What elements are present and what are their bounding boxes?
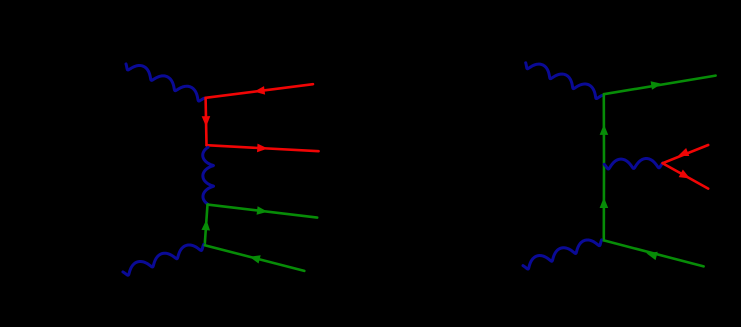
fermion line e1 (green, outgoing upper right) — [604, 76, 716, 95]
arrow on mu2 (pointing away from vertex W4) — [679, 170, 690, 179]
fermion line mu2 (red, lower fork) — [663, 163, 709, 188]
photon gamma5 (blue wavy, horizontal W2-W4) — [604, 159, 663, 170]
arrow on e23 (pointing up) — [600, 197, 609, 208]
arrow on q3 (pointing right) — [257, 206, 268, 215]
photon gamma2 (incoming wavy line, lower left) — [123, 245, 204, 276]
fermion propagator q12 (red, vertical V1-V2) — [204, 98, 207, 145]
photon gamma3 (incoming wavy line, upper left of right diagram) — [526, 63, 602, 99]
fermion propagator q34 (green, vertical V4-V3) — [205, 205, 208, 246]
photon gamma4 (incoming wavy line, lower left of right diagram) — [523, 240, 602, 269]
fermion line e2 (green, outgoing lower right) — [604, 240, 704, 266]
fermion line q1 (red, outgoing upper) — [206, 84, 313, 98]
fermion line q3 (green, outgoing upper) — [208, 205, 318, 218]
arrow on q4 (pointing toward vertex V4) — [249, 255, 260, 263]
fermion propagator e23 (green, vertical W2-W3) — [602, 165, 605, 240]
fermion line q2 (red, outgoing lower) — [207, 145, 319, 151]
arrow on mu1 (pointing toward vertex W4) — [678, 148, 689, 156]
arrow on q1 (pointing toward vertex V1) — [254, 86, 265, 95]
arrow on e12 (pointing up) — [600, 124, 609, 135]
fermion line mu1 (red, upper fork) — [663, 145, 709, 163]
fermion line q4 (green, outgoing lower) — [205, 245, 305, 271]
gluon propagator g (blue wavy, vertical V2-V3) — [203, 147, 214, 204]
arrow on q12 (pointing down) — [202, 116, 211, 127]
arrow on q34 (pointing up) — [201, 220, 210, 231]
arrow on e1 (pointing right) — [651, 81, 662, 89]
arrow on q2 (pointing right) — [257, 144, 268, 153]
photon gamma1 (incoming wavy line, upper left) — [126, 64, 204, 101]
fermion propagator e12 (green, vertical W1-W2) — [602, 94, 605, 165]
arrow on e2 (pointing toward vertex W3) — [646, 252, 657, 260]
